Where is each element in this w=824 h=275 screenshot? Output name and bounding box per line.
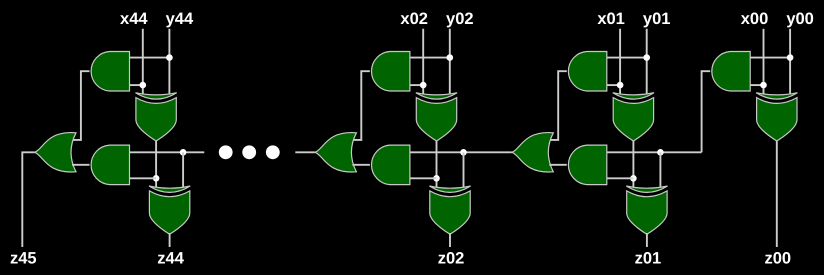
wire AND02a output elbow to OR02	[352, 71, 370, 140]
svg-text:y44: y44	[166, 10, 194, 28]
AND gate AND01b (carry AND xor)	[568, 145, 606, 185]
junction on x44 line	[140, 82, 147, 89]
junction on x01 line	[617, 82, 624, 89]
wire XOR44b right input	[182, 152, 184, 189]
wire carry row into AND44b	[130, 151, 205, 153]
AND gate AND02b (carry AND xor)	[372, 145, 410, 185]
wire AND02a top input (from y02)	[410, 57, 450, 59]
wire AND44b output to OR44	[72, 164, 90, 166]
wire AND01a bottom input (from x01)	[607, 84, 620, 86]
wire carry row into AND01b	[607, 151, 702, 153]
XOR gate XOR02a (x02 XOR y02)	[416, 93, 457, 141]
svg-text:y00: y00	[786, 10, 814, 28]
wire XOR01b right input	[659, 152, 661, 189]
wire AND00a top input (from y00)	[750, 57, 790, 59]
junction on y02 line	[447, 54, 454, 61]
svg-text:x01: x01	[597, 10, 625, 28]
wire AND02b bottom input	[410, 177, 437, 179]
wire AND02a bottom input (from x02)	[410, 84, 423, 86]
wire AND44a output elbow to OR44	[72, 71, 90, 140]
wire y00 input vertical	[789, 29, 791, 96]
AND gate AND44a (x44 AND y44)	[91, 52, 129, 92]
svg-text:y01: y01	[643, 10, 671, 28]
wire AND44b bottom input	[130, 177, 157, 179]
wire AND44a bottom input (from x44)	[130, 84, 143, 86]
svg-text:z02: z02	[438, 250, 465, 268]
svg-text:z45: z45	[10, 250, 37, 268]
wire XOR01a output down to node	[632, 139, 634, 189]
wire carry row into AND02b	[410, 151, 512, 153]
XOR gate XOR00a (sum)	[756, 93, 797, 141]
svg-text:x44: x44	[120, 10, 148, 28]
XOR gate XOR44b (sum)	[149, 186, 190, 234]
wire sum output z02	[449, 233, 451, 247]
junction XOR02a output node	[433, 175, 440, 182]
AND gate AND44b (carry AND xor)	[91, 145, 129, 185]
wire sum output z44	[169, 233, 171, 247]
wire XOR02b right input	[463, 152, 465, 189]
ellipsis dot 2	[242, 145, 256, 159]
wire sum output z01	[646, 233, 648, 247]
junction XOR44a output node	[153, 175, 160, 182]
junction on x00 line	[760, 82, 767, 89]
svg-text:z01: z01	[635, 250, 662, 268]
wire OR02 output to dots	[295, 151, 315, 153]
wire y44 input vertical	[168, 29, 170, 96]
wire AND00a output elbow down to carry row	[702, 71, 711, 152]
wire AND02b output to OR02	[352, 164, 370, 166]
wire x01 input vertical	[619, 29, 621, 96]
junction carry row / XOR44b right input	[180, 149, 187, 156]
svg-text:x00: x00	[741, 10, 769, 28]
XOR gate XOR01b (sum)	[626, 186, 667, 234]
wire y01 input vertical	[646, 29, 648, 96]
ellipsis dot 1	[219, 145, 233, 159]
svg-text:y02: y02	[446, 10, 474, 28]
AND gate AND02a (x02 AND y02)	[372, 52, 410, 92]
wire x02 input vertical	[422, 29, 424, 96]
wire AND44a top input (from y44)	[130, 57, 170, 59]
junction XOR01a output node	[630, 175, 637, 182]
OR gate OR02 (carry out)	[315, 133, 357, 172]
wire x00 input vertical	[763, 29, 765, 96]
wire AND01b bottom input	[607, 177, 634, 179]
wire XOR00a output down to z00	[776, 139, 778, 247]
wire AND01b output to OR01	[549, 164, 567, 166]
junction on x02 line	[420, 82, 427, 89]
wire XOR44a output down to node	[155, 139, 157, 189]
XOR gate XOR02b (sum)	[429, 186, 470, 234]
wire x44 input vertical	[142, 29, 144, 96]
AND gate AND01a (x01 AND y01)	[568, 52, 606, 92]
OR gate OR01 (carry out)	[512, 133, 554, 172]
junction on y44 line	[166, 54, 173, 61]
svg-text:x02: x02	[400, 10, 428, 28]
OR gate OR44 (carry out)	[35, 133, 77, 172]
wire AND01a output elbow to OR01	[549, 71, 567, 140]
wire AND00a bottom input (from x00)	[750, 84, 763, 86]
XOR gate XOR01a (x01 XOR y01)	[613, 93, 654, 141]
XOR gate XOR44a (x44 XOR y44)	[136, 93, 177, 141]
ellipsis dot 3	[266, 145, 280, 159]
junction carry row / XOR01b right input	[657, 149, 664, 156]
svg-text:z44: z44	[157, 250, 184, 268]
wire y02 input vertical	[449, 29, 451, 96]
junction carry row / XOR02b right input	[460, 149, 467, 156]
wire XOR02a output down to node	[436, 139, 438, 189]
junction on y00 line	[787, 54, 794, 61]
wire OR44 output to z45	[22, 152, 34, 247]
AND gate AND00a (x00 AND y00)	[712, 52, 750, 92]
junction on y01 line	[643, 54, 650, 61]
svg-text:z00: z00	[764, 250, 791, 268]
wire AND01a top input (from y01)	[607, 57, 647, 59]
